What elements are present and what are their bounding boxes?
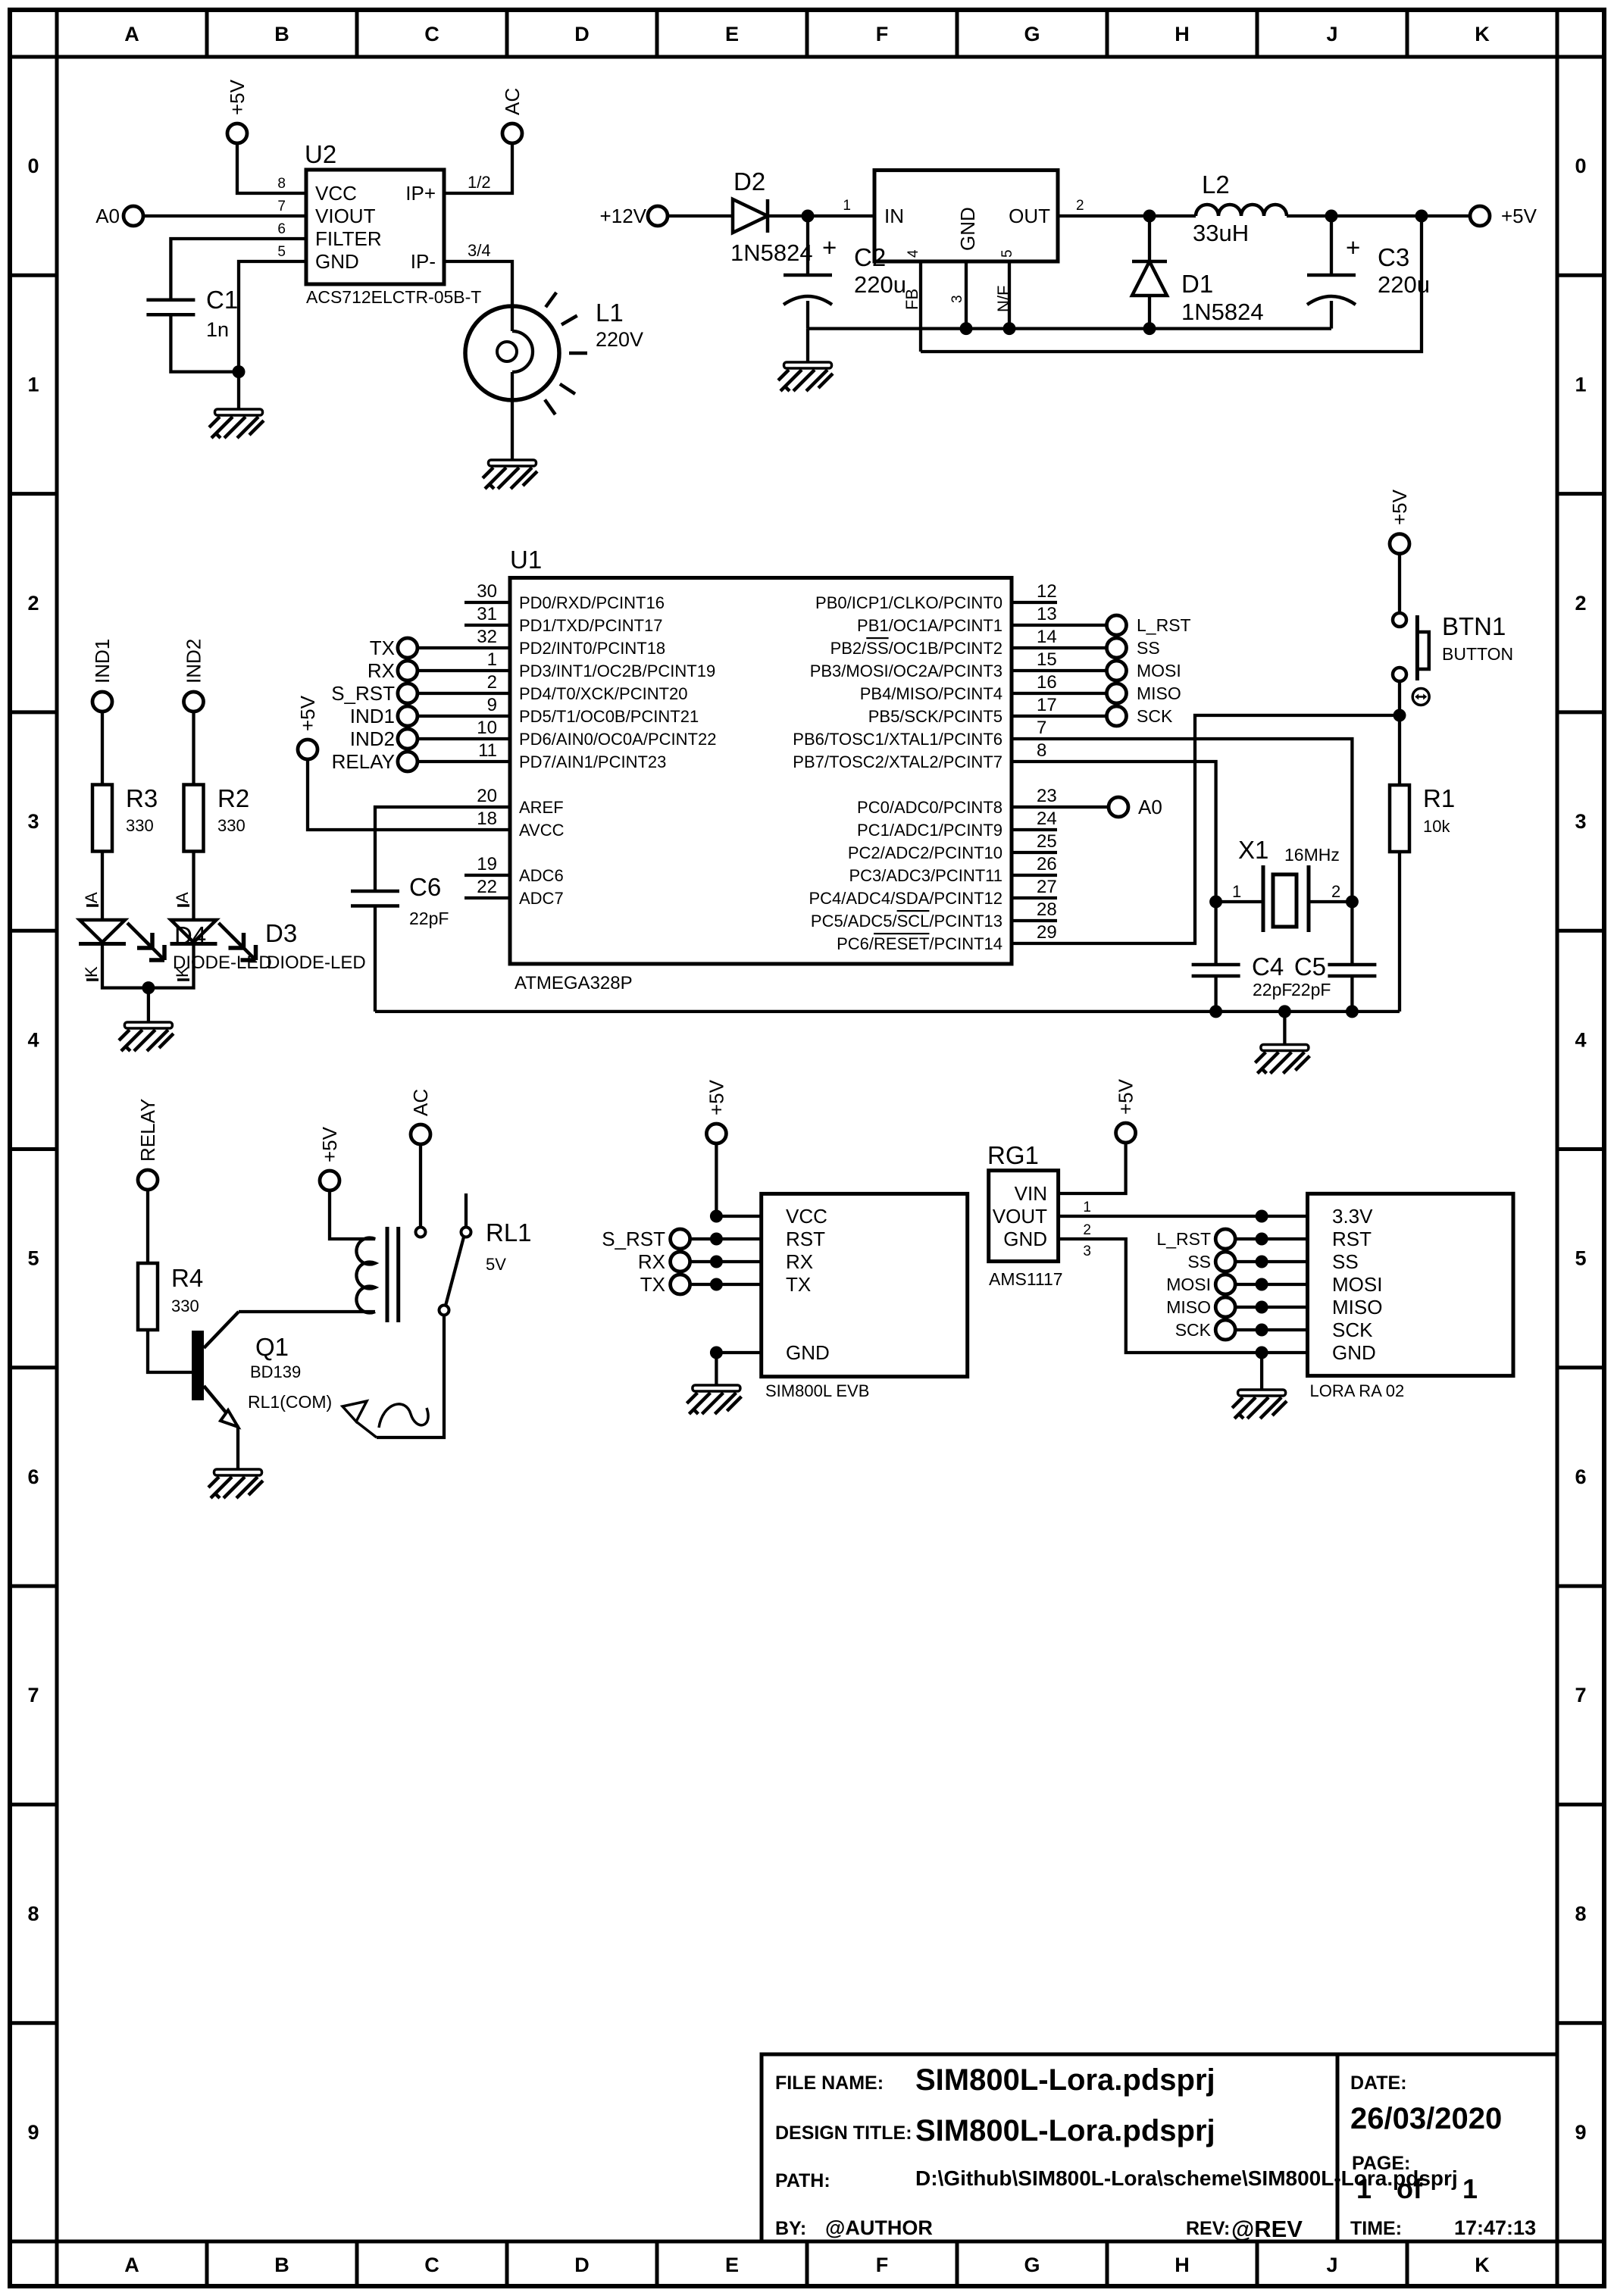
svg-text:2: 2 <box>1331 882 1340 901</box>
svg-text:RX: RX <box>368 659 395 682</box>
terminal TX (U1) <box>370 637 418 659</box>
svg-text:1N5824: 1N5824 <box>1181 299 1264 325</box>
terminal SCK (LORA) <box>1175 1320 1235 1340</box>
svg-text:PD3/INT1/OC2B/PCINT19: PD3/INT1/OC2B/PCINT19 <box>519 662 715 680</box>
capacitor C3 220u <box>1307 216 1430 329</box>
svg-text:1: 1 <box>1083 1200 1091 1215</box>
svg-text:9: 9 <box>487 695 497 715</box>
inductor L2 33uH <box>1193 170 1287 246</box>
power terminal +5V (BTN1) <box>1388 489 1411 553</box>
svg-text:of: of <box>1397 2173 1423 2204</box>
terminal RX (U1) <box>368 659 418 682</box>
svg-text:2: 2 <box>1076 198 1084 214</box>
svg-text:7: 7 <box>27 1684 39 1706</box>
wire MOSI to LORA <box>1235 1283 1308 1286</box>
svg-text:RELAY: RELAY <box>332 750 395 773</box>
wire U2 GND down <box>239 261 306 372</box>
wire TX to SIM <box>690 1283 762 1286</box>
wire C1 bottom to junction <box>170 314 239 371</box>
svg-text:1: 1 <box>1232 882 1241 901</box>
power terminal +5V (out) <box>1470 205 1537 227</box>
ground (Q1) <box>208 1469 263 1498</box>
svg-text:RELAY: RELAY <box>136 1099 159 1162</box>
transistor Q1 BD139 <box>192 1312 332 1427</box>
wire RX to SIM <box>690 1260 762 1263</box>
power terminal +5V (AVCC) <box>296 695 319 759</box>
junction (LORA GND) <box>1256 1347 1268 1359</box>
wire +5V to button <box>1398 553 1401 613</box>
svg-text:BTN1: BTN1 <box>1442 612 1506 640</box>
junction (FB sense) <box>1415 210 1428 223</box>
svg-text:BY:: BY: <box>775 2218 806 2239</box>
svg-text:6: 6 <box>27 1465 39 1488</box>
COM arrow marker <box>343 1401 428 1437</box>
svg-text:1/2: 1/2 <box>468 173 491 192</box>
svg-text:B: B <box>274 23 289 45</box>
wire RELAY to U1 <box>417 760 510 763</box>
capacitor C1 1n <box>146 286 238 341</box>
svg-text:4: 4 <box>906 249 921 258</box>
wire L_RST to LORA <box>1235 1237 1308 1240</box>
svg-text:C4: C4 <box>1252 952 1284 981</box>
svg-text:RL1(COM): RL1(COM) <box>248 1392 332 1412</box>
title block <box>762 2054 1557 2242</box>
svg-text:2: 2 <box>1083 1222 1091 1238</box>
svg-text:PB5/SCK/PCINT5: PB5/SCK/PCINT5 <box>868 707 1002 726</box>
svg-text:GND: GND <box>1332 1341 1376 1364</box>
svg-text:9: 9 <box>1575 2121 1586 2144</box>
power terminal +5V (SIM) <box>705 1079 727 1143</box>
svg-text:1: 1 <box>1575 374 1586 396</box>
svg-text:C: C <box>424 23 439 45</box>
svg-text:3: 3 <box>949 295 965 303</box>
svg-text:C3: C3 <box>1378 243 1409 271</box>
svg-text:AVCC: AVCC <box>519 821 565 840</box>
wire SIM GND <box>716 1351 761 1354</box>
svg-text:+5V: +5V <box>296 695 319 731</box>
svg-text:+5V: +5V <box>1501 205 1537 227</box>
junction (SIM TX) <box>710 1278 723 1291</box>
svg-text:H: H <box>1175 23 1190 45</box>
junction (pin5 gnd) <box>1003 322 1016 335</box>
terminal L_RST (U1 right) <box>1107 615 1191 635</box>
terminal TX (SIM) <box>640 1273 690 1296</box>
wire U1 to SS <box>1012 646 1107 649</box>
svg-text:BUTTON: BUTTON <box>1442 644 1513 664</box>
svg-text:PC3/ADC3/PCINT11: PC3/ADC3/PCINT11 <box>849 866 1002 885</box>
terminal A0 (PC0) <box>1109 796 1162 818</box>
resistor R4 330 <box>138 1263 203 1330</box>
svg-text:FB: FB <box>902 289 921 310</box>
chip U2 ACS712ELCTR-05B-T <box>277 140 490 307</box>
svg-text:MOSI: MOSI <box>1166 1275 1211 1294</box>
terminal IND2 (led) <box>183 639 205 712</box>
svg-text:RX: RX <box>786 1250 813 1273</box>
svg-text:2: 2 <box>1575 592 1586 615</box>
svg-text:D: D <box>574 23 590 45</box>
svg-text:PD5/T1/OC0B/PCINT21: PD5/T1/OC0B/PCINT21 <box>519 707 699 726</box>
svg-text:+5V: +5V <box>1115 1078 1137 1115</box>
svg-text:11: 11 <box>478 740 497 761</box>
wire U1 to SCK <box>1012 715 1107 718</box>
wire +12V to D2 <box>667 214 733 217</box>
module SIM800L EVB <box>762 1193 968 1400</box>
junction (X1 pin1) <box>1209 896 1222 909</box>
svg-text:C2: C2 <box>854 243 886 271</box>
svg-text:5: 5 <box>1575 1247 1586 1270</box>
svg-text:PB2/SS/OC1B/PCINT2: PB2/SS/OC1B/PCINT2 <box>830 639 1002 658</box>
svg-text:32: 32 <box>477 627 497 647</box>
svg-text:FILE NAME:: FILE NAME: <box>775 2072 884 2094</box>
svg-text:VOUT: VOUT <box>993 1205 1047 1228</box>
svg-text:220u: 220u <box>854 271 906 298</box>
svg-text:PB1/OC1A/PCINT1: PB1/OC1A/PCINT1 <box>857 616 1002 635</box>
svg-text:PAGE:: PAGE: <box>1352 2153 1410 2174</box>
svg-text:+5V: +5V <box>318 1126 341 1162</box>
wire SIM GND to ground <box>715 1353 718 1385</box>
svg-text:G: G <box>1024 23 1040 45</box>
capacitor C5 22pF <box>1291 902 1376 1012</box>
wire U1 to MISO <box>1012 692 1107 695</box>
svg-text:VCC: VCC <box>786 1205 827 1228</box>
svg-text:+: + <box>822 233 837 261</box>
svg-text:23: 23 <box>1037 786 1057 806</box>
terminal MISO (U1 right) <box>1107 683 1181 703</box>
relay core <box>387 1227 399 1322</box>
svg-text:15: 15 <box>1037 649 1057 670</box>
svg-text:GND: GND <box>315 250 359 273</box>
svg-text:LORA RA 02: LORA RA 02 <box>1310 1381 1405 1400</box>
wire U2 IP- to L1 <box>444 261 512 306</box>
svg-text:@AUTHOR: @AUTHOR <box>825 2216 933 2239</box>
svg-text:ACS712ELCTR-05B-T: ACS712ELCTR-05B-T <box>306 287 481 307</box>
svg-text:+: + <box>1346 233 1360 261</box>
svg-text:8: 8 <box>1575 1903 1586 1925</box>
svg-text:SS: SS <box>1332 1250 1359 1273</box>
svg-text:IND2: IND2 <box>350 727 395 750</box>
junction (rail gnd) <box>1278 1005 1291 1018</box>
svg-text:6: 6 <box>277 221 286 237</box>
svg-text:PB7/TOSC2/XTAL2/PCINT7: PB7/TOSC2/XTAL2/PCINT7 <box>793 752 1002 771</box>
svg-text:MISO: MISO <box>1137 683 1181 703</box>
wire C6 to ground rail <box>374 906 377 1012</box>
svg-text:26/03/2020: 26/03/2020 <box>1350 2102 1502 2135</box>
svg-text:6: 6 <box>1575 1465 1586 1488</box>
diode D1 1N5824 <box>1132 216 1264 329</box>
led D3 DIODE-LED <box>170 892 298 980</box>
svg-text:3.3V: 3.3V <box>1332 1205 1373 1228</box>
terminal AC (top) <box>501 88 524 143</box>
junction (LORA SS) <box>1256 1256 1268 1268</box>
svg-text:31: 31 <box>477 604 497 624</box>
svg-text:22pF: 22pF <box>1253 980 1292 999</box>
svg-text:MISO: MISO <box>1332 1296 1382 1318</box>
svg-text:SCK: SCK <box>1332 1318 1373 1341</box>
svg-text:D2: D2 <box>733 167 765 196</box>
relay contact NO stub <box>461 1193 471 1237</box>
svg-text:PC0/ADC0/PCINT8: PC0/ADC0/PCINT8 <box>857 798 1002 817</box>
wire LORA GND to ground <box>1260 1353 1263 1390</box>
svg-text:D4: D4 <box>174 921 206 949</box>
junction (LORA MISO) <box>1256 1301 1268 1314</box>
svg-text:330: 330 <box>126 816 154 835</box>
junction (D1 top) <box>1143 210 1156 223</box>
svg-text:GND: GND <box>1003 1228 1047 1250</box>
svg-text:26: 26 <box>1037 854 1057 874</box>
wire IND1 to R3 <box>101 711 104 785</box>
svg-text:C6: C6 <box>409 873 441 901</box>
svg-text:18: 18 <box>477 809 497 829</box>
svg-text:IN: IN <box>884 205 904 227</box>
svg-text:0: 0 <box>1575 155 1586 177</box>
svg-text:IND2: IND2 <box>183 639 205 683</box>
svg-text:1N5824: 1N5824 <box>730 239 813 266</box>
svg-text:2: 2 <box>27 592 39 615</box>
svg-text:A0: A0 <box>95 205 120 227</box>
wire U2 IP+ to AC <box>444 142 512 193</box>
junction (SIM VCC) <box>710 1210 723 1223</box>
wire +5V to U2 VCC <box>237 142 306 193</box>
svg-text:RX: RX <box>638 1250 665 1273</box>
terminal S_RST (SIM) <box>602 1228 690 1250</box>
svg-text:K: K <box>1475 23 1490 45</box>
terminal RX (SIM) <box>638 1250 690 1273</box>
svg-text:14: 14 <box>1037 627 1057 647</box>
svg-text:330: 330 <box>171 1297 199 1315</box>
junction (C4 gnd) <box>1209 1005 1222 1018</box>
svg-text:SS: SS <box>1137 638 1160 658</box>
wire S_RST to SIM <box>690 1237 762 1240</box>
svg-text:330: 330 <box>217 816 246 835</box>
svg-text:10k: 10k <box>1423 817 1450 836</box>
wire TX to U1 <box>417 646 510 649</box>
svg-text:SIM800L-Lora.pdsprj: SIM800L-Lora.pdsprj <box>915 2063 1215 2097</box>
svg-text:L2: L2 <box>1202 170 1230 199</box>
svg-text:R2: R2 <box>217 784 249 812</box>
svg-text:REV:: REV: <box>1186 2218 1230 2239</box>
svg-text:J: J <box>1326 2254 1337 2276</box>
svg-text:PC5/ADC5/SCL/PCINT13: PC5/ADC5/SCL/PCINT13 <box>811 912 1002 931</box>
svg-text:+5V: +5V <box>1388 489 1411 525</box>
junction (SIM RX) <box>710 1256 723 1268</box>
svg-text:3: 3 <box>1575 810 1586 833</box>
svg-text:TX: TX <box>370 637 395 659</box>
ground rail (power) <box>808 327 1331 330</box>
svg-text:13: 13 <box>1037 604 1057 624</box>
junction (X1 pin2) <box>1346 896 1359 909</box>
svg-text:PATH:: PATH: <box>775 2170 830 2191</box>
wire S_RST to U1 <box>417 692 510 695</box>
wire XTAL1 (pin7) to X1 <box>1012 739 1352 902</box>
svg-text:17:47:13: 17:47:13 <box>1454 2216 1536 2239</box>
svg-text:10: 10 <box>477 718 497 738</box>
svg-text:S_RST: S_RST <box>331 682 395 705</box>
wire IND2 to U1 <box>417 737 510 740</box>
buck regulator block <box>843 170 1084 352</box>
svg-text:5: 5 <box>999 249 1015 258</box>
svg-text:R3: R3 <box>126 784 158 812</box>
mcu U1 ATMEGA328P <box>464 546 1057 993</box>
wire junction to ground (leds) <box>147 988 150 1022</box>
wire SS to LORA <box>1235 1260 1308 1263</box>
ground (power) <box>778 362 833 391</box>
svg-text:D: D <box>574 2254 590 2276</box>
wire Q1 emitter to ground <box>236 1427 239 1469</box>
svg-text:30: 30 <box>477 581 497 602</box>
junction (C3 top) <box>1325 210 1338 223</box>
terminal RELAY (driver) <box>136 1099 159 1190</box>
terminal IND1 (led) <box>91 639 114 712</box>
svg-text:PD2/INT0/PCINT18: PD2/INT0/PCINT18 <box>519 639 665 658</box>
svg-text:AMS1117: AMS1117 <box>989 1269 1063 1289</box>
svg-text:X1: X1 <box>1238 836 1268 864</box>
wire SCK to LORA <box>1235 1328 1308 1331</box>
wire C2 to ground <box>806 329 809 362</box>
wire junction to ground <box>237 372 240 409</box>
svg-text:MISO: MISO <box>1166 1297 1211 1317</box>
ground (L1) <box>483 460 537 489</box>
svg-text:ADC7: ADC7 <box>519 889 564 908</box>
junction (led gnd) <box>142 981 155 994</box>
svg-text:7: 7 <box>1575 1684 1586 1706</box>
terminal +12V <box>600 205 668 227</box>
svg-text:L_RST: L_RST <box>1137 615 1191 635</box>
svg-text:PD7/AIN1/PCINT23: PD7/AIN1/PCINT23 <box>519 752 666 771</box>
wire pivot to COM <box>377 1315 444 1438</box>
svg-text:TIME:: TIME: <box>1350 2218 1402 2239</box>
svg-text:VCC: VCC <box>315 182 357 205</box>
terminal MISO (LORA) <box>1166 1297 1235 1317</box>
svg-text:J: J <box>1326 23 1337 45</box>
terminal AC (relay) <box>409 1089 432 1144</box>
wire L1 to ground <box>511 400 514 460</box>
junction (LORA L_RST) <box>1256 1233 1268 1246</box>
svg-text:+5V: +5V <box>705 1079 727 1115</box>
junction (reset node) <box>1393 709 1406 722</box>
junction (D1 gnd) <box>1143 322 1156 335</box>
resistor R2 330 <box>184 784 250 852</box>
ground (U2/C1) <box>209 409 264 438</box>
terminal IND2 (U1) <box>350 727 418 750</box>
svg-text:PD1/TXD/PCINT17: PD1/TXD/PCINT17 <box>519 616 663 635</box>
svg-text:29: 29 <box>1037 922 1057 943</box>
svg-text:B: B <box>274 2254 289 2276</box>
svg-text:E: E <box>725 23 739 45</box>
svg-text:8: 8 <box>27 1903 39 1925</box>
svg-text:24: 24 <box>1037 809 1057 829</box>
svg-text:1: 1 <box>843 198 851 214</box>
svg-text:SIM800L-Lora.pdsprj: SIM800L-Lora.pdsprj <box>915 2114 1215 2147</box>
wire FB feedback rail <box>921 216 1422 352</box>
svg-text:PB3/MOSI/OC2A/PCINT3: PB3/MOSI/OC2A/PCINT3 <box>810 662 1002 680</box>
svg-text:K: K <box>82 966 101 978</box>
wire XTAL2 (pin8) to X1 <box>1012 762 1216 902</box>
module LORA RA 02 <box>1308 1193 1514 1400</box>
svg-text:5: 5 <box>27 1247 39 1270</box>
svg-text:A: A <box>124 2254 139 2276</box>
svg-text:5V: 5V <box>486 1255 506 1274</box>
svg-text:PB6/TOSC1/XTAL1/PCINT6: PB6/TOSC1/XTAL1/PCINT6 <box>793 730 1002 749</box>
diode D2 1N5824 <box>730 167 813 266</box>
power terminal +5V (RG1) <box>1115 1078 1137 1143</box>
svg-text:22: 22 <box>477 877 497 897</box>
terminal MOSI (LORA) <box>1166 1275 1235 1294</box>
svg-text:TX: TX <box>786 1273 811 1296</box>
svg-text:220V: 220V <box>596 328 643 351</box>
capacitor C6 22pF <box>351 873 449 928</box>
wire IND2 to R2 <box>192 711 195 785</box>
crystal X1 16MHz <box>1216 836 1353 932</box>
terminal SS (U1 right) <box>1107 638 1160 658</box>
svg-text:U1: U1 <box>510 546 542 574</box>
svg-text:9: 9 <box>27 2121 39 2144</box>
svg-text:1: 1 <box>27 374 39 396</box>
svg-text:17: 17 <box>1037 695 1057 715</box>
svg-text:1: 1 <box>487 649 497 670</box>
svg-text:MOSI: MOSI <box>1332 1273 1382 1296</box>
svg-text:16: 16 <box>1037 672 1057 693</box>
power terminal +5V (RL1) <box>318 1126 341 1190</box>
svg-text:SS: SS <box>1187 1252 1211 1272</box>
wire R4 to Q1 base <box>148 1330 192 1372</box>
relay blade <box>446 1237 464 1306</box>
junction (pin3 gnd) <box>960 322 973 335</box>
regulator RG1 AMS1117 <box>987 1141 1091 1289</box>
svg-text:A: A <box>82 892 101 903</box>
svg-text:C5: C5 <box>1294 952 1326 981</box>
svg-text:4: 4 <box>1575 1028 1586 1051</box>
junction (C2 top) <box>802 210 815 223</box>
svg-text:7: 7 <box>277 199 286 214</box>
wire RG1 GND to LORA GND <box>1059 1239 1308 1353</box>
svg-text:IND1: IND1 <box>91 639 114 683</box>
svg-text:D3: D3 <box>265 919 297 947</box>
terminal SCK (U1 right) <box>1107 706 1173 726</box>
junction (SIM S_RST) <box>710 1233 723 1246</box>
wire R2 to D3 <box>192 852 195 921</box>
svg-text:22pF: 22pF <box>1291 980 1331 999</box>
wire RX to U1 <box>417 669 510 672</box>
svg-text:FILTER: FILTER <box>315 227 382 250</box>
relay contact (AC side) <box>416 1228 426 1237</box>
svg-text:16MHz: 16MHz <box>1284 845 1340 865</box>
svg-text:E: E <box>725 2254 739 2276</box>
wire rail to ground <box>1283 1012 1286 1045</box>
wire R3 to D4 <box>101 852 104 921</box>
svg-text:8: 8 <box>277 176 286 192</box>
svg-text:R1: R1 <box>1423 784 1455 812</box>
svg-text:A: A <box>173 892 192 903</box>
svg-text:A: A <box>124 23 139 45</box>
svg-text:+5V: +5V <box>226 79 249 115</box>
svg-text:3: 3 <box>27 810 39 833</box>
svg-text:IP+: IP+ <box>405 182 436 205</box>
svg-text:4: 4 <box>27 1028 39 1051</box>
terminal SS (LORA) <box>1187 1252 1235 1272</box>
wire U1 PC0 to A0 <box>1012 805 1109 809</box>
svg-text:22pF: 22pF <box>409 909 449 928</box>
junction (U2 GND / C1) <box>233 365 246 378</box>
capacitor C2 220u <box>784 216 906 329</box>
wire led cathodes to junction <box>102 944 194 988</box>
resistor R3 330 <box>92 784 158 852</box>
svg-text:PC2/ADC2/PCINT10: PC2/ADC2/PCINT10 <box>848 843 1002 862</box>
relay coil RL1 5V <box>330 1190 532 1313</box>
junction (SIM GND) <box>710 1347 723 1359</box>
svg-text:S_RST: S_RST <box>602 1228 665 1250</box>
power terminal +5V (U2) <box>226 79 249 143</box>
terminal RELAY (U1) <box>332 750 418 773</box>
